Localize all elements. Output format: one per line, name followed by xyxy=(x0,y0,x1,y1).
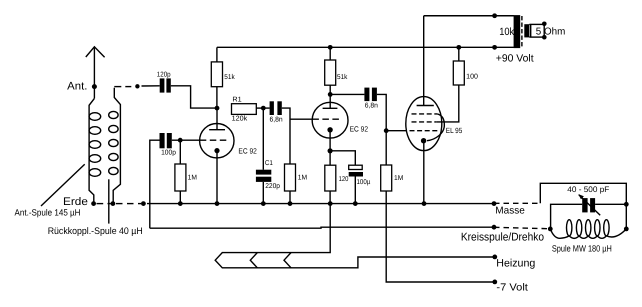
wire Kreisspule line from 100p xyxy=(150,227,494,228)
terminal dot Kreisspule xyxy=(492,225,497,230)
junction dot V1 anode node xyxy=(215,106,220,111)
junction dot EL95 grid node xyxy=(384,128,389,133)
junction dot tuned circuit right bottom xyxy=(624,227,629,232)
svg-text:R1: R1 xyxy=(232,96,241,103)
svg-text:1M: 1M xyxy=(298,175,307,182)
junction dot V2 cathode node xyxy=(328,148,333,153)
junction dot 100 ohm to +90V rail xyxy=(456,45,461,50)
wire 100p left lead down to tuned circuit line xyxy=(150,140,160,228)
terminal dot Heizung xyxy=(492,255,497,260)
ground bus dash-dot section (Erde) xyxy=(97,203,142,205)
capacitor 6.8n (1) xyxy=(270,101,283,123)
tube EC 92 V1 xyxy=(200,108,257,204)
svg-text:6,8n: 6,8n xyxy=(270,117,283,124)
svg-text:EL 95: EL 95 xyxy=(446,126,463,135)
wire grid node to EL95 g1 xyxy=(386,130,406,132)
wire tuned circuit middle branch xyxy=(551,204,627,229)
terminal dot -7 Volt xyxy=(492,280,497,285)
heater cable symbol xyxy=(215,204,495,268)
junction dot 100µ to ground xyxy=(353,201,358,206)
svg-text:100µ: 100µ xyxy=(357,179,371,186)
junction dot tuned circuit left bottom xyxy=(548,227,553,232)
terminal dot Masse xyxy=(492,201,497,206)
+90V rail wire xyxy=(217,46,514,48)
wire V2 cathode to 100µ xyxy=(330,151,355,165)
wire dash-dot from feedback winding to 120p xyxy=(114,85,159,88)
junction dot V1 grid node xyxy=(178,138,183,143)
junction dot 51k(2) to +90V rail xyxy=(328,45,333,50)
output transformer secondary winding xyxy=(524,24,529,37)
svg-text:1M: 1M xyxy=(394,175,403,182)
coil former outline xyxy=(89,88,120,203)
junction dot R1 right node xyxy=(261,106,266,111)
capacitor 100p xyxy=(160,133,176,156)
svg-text:Kreisspule/Drehko: Kreisspule/Drehko xyxy=(461,232,544,244)
feedback winding L2 40µH loops xyxy=(109,111,118,174)
tube EL 95 xyxy=(406,97,463,151)
junction dot V1 cathode to ground xyxy=(215,201,220,206)
node Ant junction dot xyxy=(92,84,97,89)
svg-text:6,8n: 6,8n xyxy=(365,103,378,110)
svg-text:100: 100 xyxy=(466,74,478,81)
svg-text:Spule MW 180 µH: Spule MW 180 µH xyxy=(552,243,612,253)
svg-text:51k: 51k xyxy=(224,73,235,81)
resistor R1 120k xyxy=(232,96,270,122)
tube EC 92 V2 xyxy=(312,94,368,150)
capacitor 6.8n (2) xyxy=(330,88,378,110)
resistor 120 cathode xyxy=(325,151,349,204)
wire 6.8n(2) to EL95 grid xyxy=(377,94,386,130)
resistor 100 screen xyxy=(453,47,478,85)
svg-text:EC 92: EC 92 xyxy=(350,124,369,133)
junction dot EL95 cathode to ground xyxy=(422,201,427,206)
wire 1M(3) down to -7 Volt line xyxy=(386,191,495,282)
wire EL95 anode to transformer xyxy=(423,16,425,106)
resistor 1M (3) grid leak EL95 xyxy=(381,131,404,191)
speaker 5 Ohm box xyxy=(529,24,544,37)
capacitor 120p xyxy=(157,72,171,93)
label Rückkoppl.-Spule 40 µH with pointer line xyxy=(48,179,143,237)
wire transformer primary top xyxy=(424,15,514,17)
junction dot tuned circuit right middle xyxy=(624,202,629,207)
svg-text:Ant.-Spule 145 µH: Ant.-Spule 145 µH xyxy=(15,208,81,218)
svg-text:40 - 500 pF: 40 - 500 pF xyxy=(567,185,609,194)
resistor 1M (2) grid leak xyxy=(285,164,308,204)
svg-text:Masse: Masse xyxy=(495,206,525,217)
svg-text:+90 Volt: +90 Volt xyxy=(496,54,534,65)
transformer core dashed line xyxy=(521,16,523,48)
ground bus main wire (Masse) xyxy=(147,203,494,205)
capacitor C1 220p xyxy=(256,108,280,204)
wire 6.8n to V2 grid and 1M(2) xyxy=(282,108,313,164)
svg-text:Ant.: Ant. xyxy=(67,80,87,92)
resistor 51k (1) xyxy=(211,47,235,108)
svg-text:100p: 100p xyxy=(161,149,176,156)
svg-text:51k: 51k xyxy=(337,73,348,81)
junction dot primary top xyxy=(492,13,497,18)
junction dot 1M(2) to ground xyxy=(288,201,293,206)
svg-text:-7 Volt: -7 Volt xyxy=(496,282,528,293)
output transformer 10k primary winding xyxy=(514,15,521,48)
svg-text:120p: 120p xyxy=(157,72,171,79)
junction dot 1M(1) to ground xyxy=(178,201,183,206)
junction dot V2 anode node xyxy=(328,92,333,97)
svg-text:EC 92: EC 92 xyxy=(238,146,257,155)
speaker terminal dot top xyxy=(542,22,547,27)
junction dot +90V rail at transformer xyxy=(492,45,497,50)
svg-text:C1: C1 xyxy=(265,160,273,167)
junction dot 120 ohm / heater to ground xyxy=(328,201,333,206)
wire 100p to V1 grid xyxy=(172,139,200,141)
junction dot coil right lead to ground xyxy=(111,201,116,206)
junction dot coil left lead to ground xyxy=(91,201,96,206)
dot on ground dash-dot line xyxy=(141,201,146,206)
svg-text:Rückkoppl.-Spule 40 µH: Rückkoppl.-Spule 40 µH xyxy=(48,226,143,237)
svg-text:Heizung: Heizung xyxy=(496,257,535,269)
svg-text:120k: 120k xyxy=(232,114,248,122)
junction dot C1 to ground xyxy=(261,201,266,206)
wire tuned circuit outer loop xyxy=(540,183,626,229)
wire 120p to R1/51k junction xyxy=(171,86,217,108)
resistor 1M (1) grid leak xyxy=(175,140,197,203)
wire EL95 g2 to 100 ohm xyxy=(437,85,459,122)
capacitor 100µ electrolytic xyxy=(349,165,371,203)
svg-text:Erde: Erde xyxy=(63,196,88,208)
svg-text:1M: 1M xyxy=(188,175,197,182)
dashed wire Masse to tuned circuit xyxy=(494,202,540,204)
svg-text:120: 120 xyxy=(339,176,349,183)
label Ant.-Spule 145 µH with pointer line xyxy=(15,164,85,218)
dot on dash-dot antenna coupling line xyxy=(135,84,139,88)
antenna winding L1 145µH loops xyxy=(89,113,101,177)
svg-text:10k: 10k xyxy=(499,26,515,38)
dashed wire Kreisspule to tuned circuit xyxy=(494,227,549,228)
antenna symbol xyxy=(86,47,105,99)
svg-text:220p: 220p xyxy=(265,183,280,190)
coil Spule MW 180 µH xyxy=(550,220,626,239)
resistor 51k (2) xyxy=(325,47,348,94)
wire EL95 cathode to ground xyxy=(423,141,425,204)
svg-text:5 Ohm: 5 Ohm xyxy=(536,27,566,38)
speaker terminal dot bottom xyxy=(542,35,547,40)
variable capacitor 40-500 pF xyxy=(567,185,609,215)
